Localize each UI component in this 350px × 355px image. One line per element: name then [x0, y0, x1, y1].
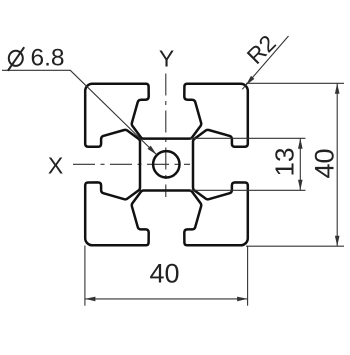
leader line phi6.8 [2, 70, 157, 154]
svg-text:40: 40 [149, 259, 179, 289]
dim 13 dimension line [299, 138, 301, 190]
X axis center line [73, 163, 190, 165]
Y axis center line [165, 74, 167, 198]
svg-text:6.8: 6.8 [31, 45, 65, 72]
dim 40 right dimension line [336, 83, 338, 246]
dim 13 extension lines [190, 137, 306, 139]
svg-text:40: 40 [310, 148, 340, 178]
dim 40 right extension lines [246, 82, 344, 84]
center hole [153, 151, 179, 177]
label phi6.8 [9, 51, 23, 66]
svg-text:X: X [48, 153, 63, 179]
leader line R2 [242, 36, 288, 89]
extrusion profile outline [85, 84, 248, 246]
svg-text:Y: Y [159, 46, 174, 72]
dim 40 bottom dimension line [85, 298, 248, 300]
dim 40 bottom extension lines [84, 246, 86, 306]
svg-text:13: 13 [270, 148, 300, 177]
